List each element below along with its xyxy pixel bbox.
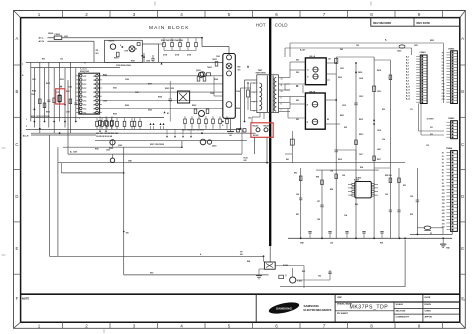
svg-text:B+3: B+3 (406, 66, 409, 68)
svg-text:R813: R813 (338, 77, 342, 79)
wire c824 link (417, 228, 443, 235)
capacitor C823 (416, 200, 420, 202)
svg-text:C91: C91 (60, 59, 63, 61)
diode D802 (307, 74, 318, 79)
svg-text:R96: R96 (380, 243, 383, 245)
svg-text:1: 1 (254, 83, 255, 85)
snubber resistor R960 (247, 83, 250, 110)
pin stubs ICS01 (76, 76, 102, 113)
svg-text:C817: C817 (359, 154, 363, 156)
svg-text:B+8: B+8 (406, 81, 409, 83)
svg-text:5V STBY: 5V STBY (427, 119, 435, 121)
svg-text:R925: R925 (103, 75, 107, 77)
svg-text:C89: C89 (342, 175, 345, 177)
svg-text:4: 4 (180, 12, 183, 17)
svg-text:R93: R93 (355, 204, 358, 206)
svg-text:B1: B1 (167, 113, 169, 115)
svg-text:S12: S12 (442, 193, 445, 195)
svg-text:APPVD: APPVD (425, 316, 433, 319)
svg-text:12: 12 (281, 79, 283, 81)
wire bus y128 (26, 128, 240, 130)
value labels misc mid (222, 118, 251, 132)
svg-text:4: 4 (180, 323, 183, 328)
svg-text:C908: C908 (146, 60, 150, 62)
wire reg rail x322 (321, 170, 323, 238)
svg-text:S20: S20 (442, 220, 445, 222)
revision table (371, 18, 460, 27)
connector CN804 (446, 147, 457, 232)
svg-text:8: 8 (370, 12, 373, 17)
svg-text:B+5: B+5 (406, 72, 409, 74)
resistor R830 (279, 275, 284, 278)
resistor R824 (398, 178, 401, 183)
svg-text:C85: C85 (410, 196, 413, 198)
wire stub x181 (181, 141, 183, 148)
svg-text:901: 901 (238, 69, 241, 71)
transformer pin numbers (254, 79, 283, 113)
transformer secondary winding (274, 78, 276, 112)
svg-text:2: 2 (85, 12, 88, 17)
node loop dot (263, 255, 265, 257)
wire bus y234 (410, 233, 452, 235)
diode DS06 (64, 103, 66, 105)
svg-text:P6: P6 (442, 71, 444, 73)
title block model number (350, 305, 389, 311)
resistor R820 (299, 176, 302, 181)
svg-text:F1: F1 (84, 63, 86, 65)
svg-text:R904: R904 (214, 78, 218, 81)
svg-text:C83: C83 (318, 276, 321, 278)
ground bridge (227, 118, 234, 135)
svg-text:S5: S5 (442, 169, 444, 171)
svg-text:D83: D83 (344, 127, 347, 129)
value labels mid (165, 88, 214, 107)
value labels misc right (300, 45, 385, 169)
svg-text:B+0: B+0 (406, 57, 409, 59)
capacitor C802 (354, 103, 358, 105)
op-amp U IC801 body (355, 182, 372, 198)
wire top drop 1 (411, 48, 413, 55)
svg-text:R815: R815 (359, 119, 363, 121)
svg-text:R912: R912 (46, 83, 50, 85)
svg-text:R814: R814 (377, 69, 381, 72)
svg-text:S1: S1 (442, 156, 444, 158)
capacitor C830 (328, 272, 332, 274)
svg-text:P2: P2 (442, 59, 444, 61)
svg-text:D80: D80 (296, 119, 299, 121)
wire hsb drop (285, 131, 294, 163)
wire loop y172 (61, 163, 123, 173)
svg-text:P10: P10 (442, 84, 445, 86)
label Q802 (285, 275, 302, 282)
svg-text:901: 901 (240, 254, 243, 256)
diode D806 (373, 119, 375, 121)
value labels under IC (182, 129, 204, 132)
svg-text:VA901: VA901 (48, 32, 53, 35)
svg-text:S0: S0 (442, 153, 444, 155)
wire AC line (48, 37, 203, 39)
svg-text:SAMSUNG: SAMSUNG (276, 306, 293, 310)
ground pc (256, 269, 264, 279)
wire top feed 1 (285, 48, 412, 57)
connector CN803 (446, 118, 457, 139)
svg-text:1W 2W 1K 5K 2K 4K: 1W 2W 1K 5K 2K 4K (96, 135, 113, 138)
bridge diode b (226, 63, 232, 69)
svg-text:DATE: DATE (425, 296, 431, 299)
svg-text:C911: C911 (32, 79, 36, 81)
svg-text:B+: B+ (385, 40, 387, 42)
diode D901 (143, 53, 145, 62)
transformer T901 label (256, 70, 267, 75)
svg-text:AC-N: AC-N (39, 40, 45, 43)
wire drop x57 (57, 163, 59, 257)
svg-text:3: 3 (254, 92, 255, 94)
svg-text:DSGN: DSGN (425, 304, 432, 306)
svg-text:R91: R91 (403, 185, 406, 187)
svg-text:C93: C93 (248, 118, 251, 120)
svg-text:D80: D80 (296, 60, 299, 62)
svg-text:P9: P9 (442, 80, 444, 82)
wire divider tail (264, 246, 271, 262)
wire drop x123 (123, 147, 125, 275)
highlight box relay (251, 123, 273, 138)
value labels bottom centre (247, 260, 321, 278)
svg-text:B+1: B+1 (406, 60, 409, 62)
wire loop y154 (68, 80, 242, 154)
svg-text:FS901: FS901 (55, 34, 62, 36)
svg-text:C917: C917 (66, 112, 70, 114)
heatsink HS_A body (305, 58, 326, 85)
svg-text:S8: S8 (442, 179, 444, 181)
svg-text:R87: R87 (296, 214, 299, 216)
svg-text:B+7: B+7 (406, 78, 409, 80)
svg-text:P12: P12 (442, 90, 445, 92)
value labels snubber row (163, 54, 192, 57)
value labels left bundle 2 (31, 91, 70, 96)
svg-text:8: 8 (281, 104, 282, 106)
svg-text:TH901: TH901 (207, 67, 212, 69)
svg-text:R916: R916 (46, 112, 50, 114)
svg-text:6: 6 (275, 323, 278, 328)
svg-text:S16: S16 (442, 206, 445, 208)
svg-text:R921 C922: R921 C922 (165, 88, 174, 90)
wire HSB in (288, 97, 305, 119)
component row on bus (96, 118, 142, 130)
svg-text:R94: R94 (360, 166, 363, 169)
heatsink HS_B body (305, 93, 325, 129)
svg-text:1: 1 (38, 323, 41, 328)
svg-text:C86: C86 (296, 194, 299, 196)
photo-coupler PC901 (178, 91, 190, 103)
title MAIN BLOCK (149, 25, 190, 31)
svg-text:R83: R83 (294, 173, 297, 175)
wire snubber stubs (164, 38, 196, 51)
svg-text:RELAY: RELAY (264, 125, 271, 128)
wire AC-N lower (31, 135, 96, 256)
svg-text:CN803: CN803 (448, 118, 455, 120)
diode D804 (307, 119, 318, 125)
wire primary drops (241, 80, 257, 129)
svg-text:11: 11 (281, 85, 283, 87)
svg-text:A: A (461, 36, 464, 41)
border row letters (15, 36, 464, 301)
labels AC snubber (161, 39, 183, 42)
resistor RS04 (53, 98, 56, 103)
wire IC to bridge rows (102, 76, 223, 109)
svg-text:3: 3 (133, 323, 136, 328)
svg-text:CN802: CN802 (448, 48, 455, 50)
svg-text:SAMSUNG: SAMSUNG (304, 304, 320, 308)
diode row on bus (166, 129, 192, 137)
paper size mark (462, 299, 466, 302)
svg-text:S21: S21 (442, 223, 445, 225)
value labels relay cluster (120, 45, 137, 53)
svg-text:R84: R84 (316, 176, 319, 179)
transistor Q902 (109, 140, 115, 150)
wire snubber feed (159, 43, 165, 45)
svg-text:D: D (15, 194, 18, 199)
diode D805 (355, 71, 362, 74)
transistor Q904 (110, 154, 114, 162)
samsung logo ellipse (268, 300, 300, 316)
svg-text:B+9: B+9 (406, 84, 409, 86)
value labels q row (95, 145, 122, 152)
svg-text:B+11: B+11 (406, 90, 410, 92)
capacitor C820 (397, 45, 405, 53)
svg-text:1: 1 (38, 12, 41, 17)
svg-text:NOTE: NOTE (22, 296, 29, 300)
svg-text:COLD: COLD (275, 22, 288, 27)
value labels bus238 (300, 243, 383, 245)
resistor row under IC-left (99, 116, 114, 129)
svg-text:S11: S11 (442, 190, 445, 192)
wire bus y133 (31, 132, 247, 134)
svg-text:7: 7 (323, 12, 326, 17)
svg-text:P8: P8 (442, 77, 444, 79)
capacitor CS15 (169, 95, 173, 105)
value labels reg (294, 170, 413, 204)
label BD901 (238, 67, 241, 72)
label IC801 (354, 177, 362, 181)
pin labels CN801 (406, 57, 410, 101)
svg-text:1: 1 (26, 119, 27, 121)
lamp DL901 (129, 46, 135, 52)
label HOT (256, 22, 266, 27)
title block label COMMODITY (396, 317, 410, 319)
svg-text:S2: S2 (442, 159, 444, 161)
wire pc out (275, 266, 304, 289)
value labels bus row2 (150, 144, 216, 147)
svg-text:CN804: CN804 (446, 147, 453, 150)
svg-text:C87: C87 (317, 201, 320, 203)
svg-text:3: 3 (79, 118, 80, 120)
svg-text:C9: C9 (135, 49, 137, 51)
node sec dots (335, 62, 375, 125)
svg-text:R84: R84 (247, 260, 250, 263)
svg-text:2: 2 (26, 126, 27, 128)
svg-text:S6: S6 (442, 173, 444, 175)
value labels HS area (296, 59, 331, 122)
wire bus y238 (288, 237, 452, 239)
label bus values (116, 64, 132, 67)
wire secondary stubs (278, 78, 290, 112)
wire sec rail x356 (355, 63, 357, 238)
svg-text:5: 5 (254, 111, 255, 113)
svg-text:P01: P01 (430, 127, 433, 129)
wire extra hsb links (285, 90, 290, 112)
svg-text:C820: C820 (397, 51, 401, 53)
value labels bus row (96, 133, 118, 138)
value labels rails (338, 69, 381, 161)
photo-coupler PC902 (264, 262, 275, 269)
title block grid (256, 294, 460, 322)
svg-text:S7: S7 (442, 176, 444, 178)
svg-text:REV DATE: REV DATE (417, 21, 431, 25)
svg-text:R91: R91 (42, 59, 45, 61)
wire vertical joins mid (170, 77, 223, 122)
svg-text:C962: C962 (106, 150, 110, 152)
svg-text:C: C (461, 142, 464, 147)
capacitor C901 (137, 43, 140, 46)
value labels bridge (207, 56, 240, 110)
wire primary stubs (251, 83, 258, 111)
title block label REF (338, 297, 343, 299)
svg-text:R914: R914 (32, 90, 36, 93)
resistor R802 (373, 156, 376, 161)
svg-text:C81: C81 (328, 59, 331, 61)
svg-text:3: 3 (133, 12, 136, 17)
svg-text:B: B (16, 89, 19, 94)
svg-text:C905 R906 D904: C905 R906 D904 (116, 64, 132, 67)
transistor Q802 (290, 268, 296, 283)
svg-text:P7: P7 (442, 74, 444, 76)
svg-text:RL902: RL902 (253, 135, 258, 137)
label mid drop (123, 231, 129, 235)
svg-text:PD SHEET: PD SHEET (337, 313, 349, 315)
svg-text:SCALE: SCALE (396, 303, 404, 306)
label AC-L (39, 37, 45, 40)
svg-text:P5: P5 (442, 68, 444, 70)
wire transformer bottom stubs (252, 113, 264, 123)
transistor on bus QS04 (200, 139, 212, 145)
wire primary bus upper (26, 61, 223, 63)
value labels connector area (410, 109, 433, 235)
note strip line (21, 293, 460, 295)
capacitor C825 (389, 210, 392, 212)
svg-text:P0: P0 (442, 53, 444, 55)
svg-text:ICS01: ICS01 (80, 67, 87, 70)
resistor RS11 (197, 77, 200, 82)
pin labels CN804 (442, 153, 445, 229)
hot-cold divider line (269, 18, 271, 246)
svg-text:E: E (461, 246, 464, 251)
wire hsa-hsb link (302, 85, 304, 93)
svg-text:5: 5 (228, 12, 231, 17)
value label hsb drop (286, 159, 289, 161)
diode specks under IC-left (99, 130, 107, 132)
node dots y162 (123, 146, 268, 173)
svg-text:IC802: IC802 (297, 281, 302, 283)
svg-text:R81: R81 (286, 159, 289, 161)
pin circles ICS01 (80, 75, 99, 114)
svg-text:RL901: RL901 (109, 41, 116, 43)
wire top feed 2 (290, 43, 402, 57)
label NOTE (22, 296, 29, 300)
svg-text:R901: R901 (114, 58, 119, 60)
svg-text:S15: S15 (442, 203, 445, 205)
svg-text:W01: W01 (150, 273, 154, 275)
svg-text:Q902: Q902 (118, 145, 122, 147)
label HS_A (310, 55, 316, 58)
wire relay feeds (247, 133, 267, 163)
svg-text:C811: C811 (340, 68, 344, 70)
svg-text:R923: R923 (192, 105, 196, 107)
svg-text:C813: C813 (377, 91, 381, 93)
resistor RS07 (69, 99, 72, 104)
svg-text:R811: R811 (340, 115, 344, 117)
svg-text:10: 10 (281, 91, 283, 93)
svg-text:ELECTRO-MECHANICS: ELECTRO-MECHANICS (304, 309, 332, 312)
net arrow snubber (161, 62, 250, 67)
bridge diode d (226, 102, 232, 108)
title block label MODEL NAME (337, 303, 352, 306)
connector CN801 (416, 52, 427, 103)
svg-text:R93: R93 (382, 109, 385, 111)
wire left bundle (31, 62, 76, 133)
svg-text:C927: C927 (135, 92, 139, 94)
svg-text:D921: D921 (113, 88, 117, 90)
value labels left bundle (31, 116, 50, 118)
svg-text:MAIN BLOCK: MAIN BLOCK (149, 25, 190, 31)
svg-text:C906: C906 (236, 91, 240, 93)
bridge diode a (227, 55, 232, 60)
thermistor TH901 (200, 72, 210, 77)
wire primary bus lower (31, 67, 120, 69)
svg-text:F: F (16, 296, 19, 301)
wire ZD branch (96, 50, 99, 55)
label under relay (253, 135, 258, 137)
svg-text:R908: R908 (236, 108, 240, 110)
pin labels CN802 (442, 53, 445, 102)
net arrow left bundle (60, 85, 62, 87)
svg-text:S17: S17 (442, 210, 445, 212)
svg-text:QS01: QS01 (196, 70, 201, 72)
svg-text:B: B (461, 89, 464, 94)
transformer primary winding (260, 83, 262, 110)
svg-text:8: 8 (370, 323, 373, 328)
svg-text:E: E (16, 246, 19, 251)
svg-text:S19: S19 (442, 217, 445, 219)
svg-text:C96: C96 (382, 139, 385, 141)
wire reg rail x417 (416, 168, 418, 234)
wire bus y140 (95, 140, 247, 142)
svg-text:R88: R88 (330, 189, 333, 191)
svg-text:AC-N: AC-N (23, 135, 29, 138)
svg-text:R817: R817 (377, 159, 381, 161)
svg-text:C90: C90 (385, 194, 388, 196)
svg-text:COMMODITY: COMMODITY (396, 317, 410, 319)
highlight box fuse FP901 (56, 89, 65, 104)
svg-text:D80: D80 (296, 72, 299, 74)
capacitor C803 (373, 86, 376, 91)
label TP901 (240, 251, 243, 256)
title block label CHKD (425, 311, 432, 313)
wire top drop 2 (402, 43, 444, 103)
title block label SCALE (396, 303, 404, 306)
value labels sec (340, 68, 381, 151)
wire sec rail x336 (335, 57, 337, 238)
svg-text:7: 7 (323, 323, 326, 328)
